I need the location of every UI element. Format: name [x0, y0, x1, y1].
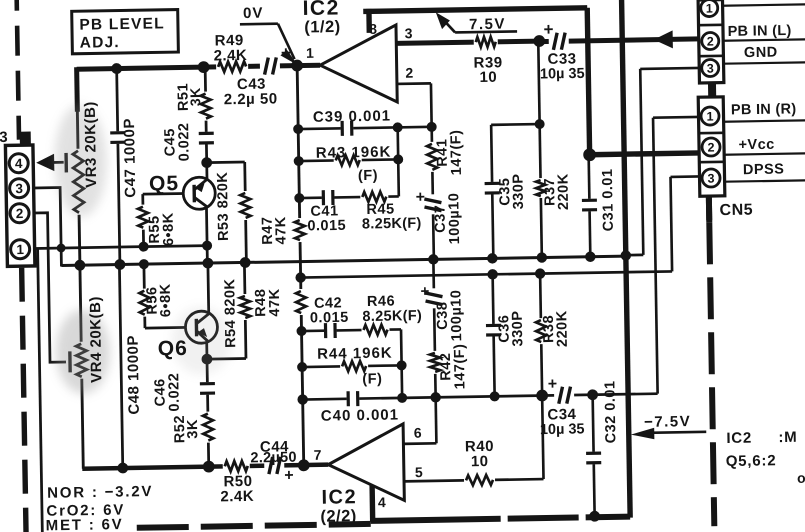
- right boundary dashed line below CN5: [706, 195, 712, 222]
- svg-text:5: 5: [415, 464, 423, 480]
- resistor R43: [334, 152, 362, 168]
- op-amp IC2 (2/2): [328, 424, 405, 502]
- resistor R42: [427, 351, 443, 374]
- connector CN5 lower box: [698, 97, 725, 196]
- wire C47 column: [117, 69, 120, 265]
- svg-text:8.25K(F): 8.25K(F): [362, 216, 422, 233]
- svg-text:220K: 220K: [555, 173, 572, 210]
- svg-text:330P: 330P: [510, 173, 527, 209]
- resistor R41: [424, 142, 440, 172]
- gray scan smudge near Q6: [171, 306, 232, 375]
- wire DPSS lead of CN5: [671, 175, 700, 178]
- wire right column of upper RC network: [398, 127, 399, 196]
- wire C48 column: [119, 265, 122, 468]
- svg-text:R46: R46: [367, 293, 395, 309]
- wire VR3 wiper lead to pin4: [52, 161, 64, 164]
- svg-text:6•8K: 6•8K: [158, 283, 175, 317]
- pin 2 upper CN5 PB IN L: [702, 32, 719, 49]
- wire C41/R45 row: [299, 196, 398, 198]
- svg-text:PB LEVEL: PB LEVEL: [79, 15, 165, 33]
- potentiometer VR3 wiper bar: [64, 153, 68, 172]
- svg-text:Q6: Q6: [158, 337, 188, 360]
- svg-text:R53 820K: R53 820K: [215, 172, 232, 242]
- wire IC2 pin6 stub: [403, 442, 436, 445]
- wire DPSS row: [301, 271, 672, 277]
- svg-text:7: 7: [314, 447, 322, 463]
- svg-text:10µ 35: 10µ 35: [540, 421, 585, 438]
- svg-text:0.015: 0.015: [310, 310, 349, 327]
- capacitor C36 plates: [484, 324, 503, 337]
- wire pin2 lead of CN3 down to VR4 wiper: [34, 212, 66, 362]
- wire C36 column: [493, 274, 495, 396]
- svg-text:100µ10: 100µ10: [446, 193, 463, 245]
- potentiometer VR4 wiper bar: [68, 351, 72, 372]
- wire C32 column: [593, 395, 595, 517]
- svg-text:3: 3: [707, 171, 714, 185]
- capacitor C42 plates: [324, 321, 337, 340]
- wire VR4 column: [80, 265, 83, 468]
- resistor R46: [361, 322, 389, 338]
- wire Q6 base lead: [145, 326, 196, 330]
- svg-text:10: 10: [479, 69, 497, 86]
- capacitor C41 plates: [322, 188, 335, 207]
- svg-text:6: 6: [414, 425, 422, 441]
- pin 2 lower CN5 +Vcc: [702, 138, 720, 156]
- svg-text:IC2: IC2: [726, 430, 752, 447]
- wire C45 / Q5 collector column: [205, 67, 207, 180]
- resistor R49 on thick row: [216, 58, 248, 75]
- wire node row Q6 emitter to R54: [207, 357, 246, 360]
- svg-text:2.4K: 2.4K: [220, 488, 254, 506]
- rail scan gaps: [501, 513, 508, 524]
- svg-text:147(F): 147(F): [448, 129, 465, 175]
- svg-text:2: 2: [707, 140, 714, 154]
- svg-text:MET : 6V: MET : 6V: [46, 516, 124, 532]
- wire C31 column: [589, 155, 591, 256]
- svg-text:+: +: [548, 376, 558, 393]
- 0V pointer line: [240, 22, 278, 25]
- wire -7.5V bottom rail (thick): [371, 517, 630, 521]
- wire thick drop from bus to +Vcc junction: [587, 8, 589, 155]
- svg-text:47K: 47K: [267, 288, 283, 316]
- 7.5V pointer line with arrow to bus: [455, 31, 517, 32]
- svg-text:Q5,6:2: Q5,6:2: [726, 452, 777, 470]
- wire IC2(2/2) pin4 V- stub: [369, 484, 375, 522]
- svg-text:VR4 20K(B): VR4 20K(B): [87, 296, 105, 383]
- resistor R48: [293, 289, 309, 315]
- wire R53 column: [245, 162, 247, 262]
- wire C38/R42 column: [433, 259, 436, 443]
- wire right column of lower RC network: [401, 329, 402, 397]
- wire R55 column: [141, 194, 145, 246]
- wire -7.5V long thick vertical: [621, 0, 630, 518]
- svg-text:1: 1: [706, 1, 713, 15]
- potentiometer VR3 body: [70, 149, 87, 215]
- left board-boundary dashed line: [17, 0, 19, 140]
- resistor R45: [360, 189, 388, 205]
- svg-text:8.25K(F): 8.25K(F): [362, 308, 422, 325]
- pin 3 of CN3: [9, 179, 28, 198]
- svg-text:+: +: [543, 20, 553, 39]
- svg-text:(2/2): (2/2): [320, 507, 357, 526]
- connector CN5 upper box: [698, 0, 724, 83]
- svg-text:(F): (F): [358, 168, 378, 184]
- wire R43 row: [299, 159, 398, 161]
- capacitor C31 plates: [580, 199, 599, 212]
- pin 2 of CN3: [10, 204, 29, 223]
- wire C42/R46 row: [302, 329, 401, 331]
- wire DPSS column: [671, 177, 673, 271]
- wire GND column: [640, 69, 643, 255]
- label separator lines right edge: [722, 4, 805, 6]
- pin 3 upper CN5 GND: [702, 59, 719, 76]
- resistor R56: [136, 289, 152, 317]
- svg-text:IC2: IC2: [321, 486, 357, 509]
- svg-text:3: 3: [707, 61, 714, 75]
- wire line A connector pin1 row: [35, 246, 207, 249]
- svg-text:0V: 0V: [243, 5, 264, 22]
- arrow from VR3 wiper into CN3 pin4: [36, 154, 54, 172]
- wire C35 top row: [491, 123, 539, 126]
- wire R44 row: [302, 365, 401, 367]
- wire GND lead of CN5: [640, 67, 699, 71]
- svg-text:147(F): 147(F): [452, 343, 469, 389]
- arrow on PB IN L signal line: [654, 30, 673, 48]
- wire R37 column from pin3 node: [538, 41, 542, 257]
- svg-text:100µ10: 100µ10: [448, 289, 465, 341]
- resistor R52: [200, 411, 217, 442]
- transistor Q6: [185, 311, 218, 344]
- svg-text:2: 2: [16, 206, 24, 221]
- svg-text:+: +: [284, 467, 294, 484]
- node dots: [111, 63, 122, 74]
- svg-text:C31 0.01: C31 0.01: [600, 168, 617, 231]
- svg-text:+: +: [281, 43, 291, 62]
- resistor R38: [533, 318, 549, 344]
- pin 1 of CN3: [10, 240, 29, 259]
- bottom boundary thick dashed line: [137, 524, 371, 528]
- svg-text:4: 4: [15, 156, 23, 171]
- capacitor C39 plates: [341, 119, 354, 138]
- svg-text:o: o: [797, 470, 805, 486]
- connector CN3 box: [5, 145, 35, 266]
- svg-text:330P: 330P: [510, 310, 527, 346]
- svg-text:Q5: Q5: [149, 172, 179, 195]
- resistor R44: [340, 358, 368, 374]
- svg-text:C47 1000P: C47 1000P: [121, 118, 139, 198]
- wire IC2 pin8 supply stub: [366, 9, 372, 33]
- svg-text:4: 4: [378, 494, 386, 510]
- svg-text:+Vcc: +Vcc: [738, 137, 775, 154]
- wire Q6 emitter column / C46 / R52 column: [207, 342, 209, 467]
- svg-text:1: 1: [16, 242, 24, 257]
- wire +Vcc thick row to CN5: [590, 153, 700, 155]
- potentiometer VR4 body: [73, 342, 90, 379]
- wire Q5 emitter column: [205, 204, 209, 263]
- svg-text:2: 2: [707, 34, 714, 48]
- wire bottom feedback row (thick) VR4 to IC2 pin7: [82, 465, 328, 469]
- capacitor C34 electrolytic: [554, 385, 574, 406]
- svg-text:3: 3: [15, 181, 23, 196]
- label PB LEVEL ADJ box: [72, 10, 179, 54]
- wire R54 column: [244, 262, 246, 358]
- capacitor C35 plates: [483, 182, 502, 195]
- svg-text:0.022: 0.022: [176, 122, 193, 161]
- connector CN3 top tab: [20, 132, 31, 146]
- gray scan smudge near VR3: [54, 104, 108, 217]
- transistor Q5: [183, 177, 216, 210]
- svg-text:0.022: 0.022: [166, 373, 183, 412]
- pin 1 upper CN5: [701, 0, 718, 17]
- wire thick signal row C33 to PB IN L pin: [539, 39, 698, 42]
- svg-text:3: 3: [0, 129, 8, 146]
- wire main column R47/R48 under IC2 pin1: [297, 66, 304, 466]
- wire VR3 top thick drop: [74, 67, 80, 111]
- wire IC2 pin5 stub with R40: [404, 479, 543, 481]
- svg-text:R44 196K: R44 196K: [317, 345, 393, 363]
- svg-text:DPSS: DPSS: [743, 162, 785, 179]
- svg-text:3: 3: [405, 25, 413, 41]
- svg-text:CN5: CN5: [719, 202, 753, 220]
- CN5 tail stub: [706, 196, 712, 220]
- wire PB IN R column: [653, 118, 658, 394]
- svg-text:C39 0.001: C39 0.001: [313, 108, 392, 126]
- wire C40 / C34 row: [303, 394, 658, 400]
- resistor R37: [533, 178, 549, 198]
- svg-text:+: +: [416, 189, 426, 206]
- capacitor C37 electrolytic: [422, 194, 443, 214]
- svg-text:(F): (F): [362, 371, 382, 387]
- svg-text:+: +: [420, 283, 429, 300]
- capacitor C44 electrolytic: [264, 455, 284, 476]
- svg-text:(1/2): (1/2): [304, 18, 341, 37]
- svg-text:GND: GND: [744, 45, 778, 62]
- connector CN5 joining stub: [708, 83, 716, 97]
- wire IC2 pin2 stub: [395, 82, 430, 85]
- capacitor C33 electrolytic: [549, 31, 569, 52]
- pin 4 of CN3: [9, 154, 28, 173]
- wire R40/R38 column: [540, 274, 543, 479]
- svg-text:C48 1000P: C48 1000P: [125, 335, 143, 415]
- -7.5V pointer line with arrow: [641, 432, 706, 433]
- capacitor C40 plates: [347, 389, 360, 408]
- svg-text:1: 1: [306, 45, 314, 61]
- wire IC2 pin3 thick output row with R39: [396, 41, 539, 43]
- resistor R40: [464, 472, 495, 489]
- op-amp IC2 (1/2): [319, 25, 397, 103]
- svg-text:NOR : −3.2V: NOR : −3.2V: [47, 483, 153, 502]
- svg-text:3K: 3K: [185, 419, 201, 439]
- svg-text:47K: 47K: [273, 216, 289, 244]
- wire GND jog to ground rail: [626, 254, 643, 257]
- capacitor C45: [197, 132, 216, 145]
- wire node row Q5 collector to R53: [207, 161, 245, 164]
- svg-text:8: 8: [369, 21, 377, 37]
- svg-text:R43 196K: R43 196K: [316, 144, 392, 162]
- svg-text:6•8K: 6•8K: [161, 212, 178, 246]
- svg-text:ADJ.: ADJ.: [80, 34, 120, 52]
- svg-text:1: 1: [706, 109, 713, 123]
- wire line B ground rail: [61, 256, 625, 265]
- wire R41/C37 column: [431, 83, 434, 259]
- wire 7.5V top bus (thick): [363, 8, 587, 12]
- svg-text:VR3 20K(B): VR3 20K(B): [82, 101, 100, 188]
- svg-text:PB IN (R): PB IN (R): [731, 101, 797, 118]
- capacitor C38 electrolytic: [423, 288, 444, 308]
- resistor R50 on bottom row: [223, 458, 250, 474]
- capacitor C32 plates: [584, 452, 603, 465]
- wire VR3 column: [77, 109, 80, 265]
- resistor R47: [292, 218, 308, 242]
- wire PB IN R lead of CN5: [653, 116, 698, 119]
- resistor R55: [135, 205, 151, 230]
- wire C35 column: [491, 125, 493, 258]
- svg-text:0.015: 0.015: [307, 218, 346, 235]
- pin 1 lower CN5 PB IN R: [701, 107, 719, 125]
- resistor R53: [237, 191, 253, 220]
- wire pin3 lead of CN3: [34, 188, 62, 267]
- wire pin1 drop column to bottom edge: [38, 248, 43, 532]
- svg-text:C40 0.001: C40 0.001: [321, 406, 400, 424]
- wire C39 row: [298, 127, 431, 129]
- svg-text:2.2µ 50: 2.2µ 50: [224, 90, 278, 108]
- svg-text:3K: 3K: [187, 87, 203, 106]
- pin 3 lower CN5 DPSS: [702, 169, 720, 187]
- svg-text:2.2µ50: 2.2µ50: [250, 450, 297, 467]
- svg-text:−7.5V: −7.5V: [644, 413, 691, 431]
- capacitor C47: [108, 131, 127, 144]
- svg-text:220K: 220K: [554, 310, 571, 347]
- svg-text::M: :M: [778, 429, 797, 446]
- resistor R51: [198, 91, 214, 120]
- svg-text:10µ 35: 10µ 35: [540, 66, 585, 83]
- resistor R54: [237, 294, 253, 320]
- capacitor C46: [198, 382, 217, 395]
- svg-text:2: 2: [405, 65, 413, 81]
- svg-text:10: 10: [471, 453, 489, 470]
- wire main feedback row (thick) from VR3 to IC2 pin1: [77, 65, 320, 69]
- gray scan smudge near VR4: [55, 309, 110, 394]
- wire R56 column: [144, 264, 145, 328]
- svg-text:R54 820K: R54 820K: [222, 278, 239, 348]
- svg-text:2.4K: 2.4K: [213, 47, 247, 65]
- svg-text:PB IN (L): PB IN (L): [727, 23, 791, 40]
- resistor R39 on thick output row: [474, 34, 498, 50]
- svg-text:7.5V: 7.5V: [469, 16, 506, 34]
- capacitor C43 electrolytic: [260, 55, 280, 76]
- wire Q5 base lead: [143, 192, 194, 196]
- wire Q6 collector column: [207, 263, 211, 312]
- svg-text:C32 0.01: C32 0.01: [602, 380, 619, 443]
